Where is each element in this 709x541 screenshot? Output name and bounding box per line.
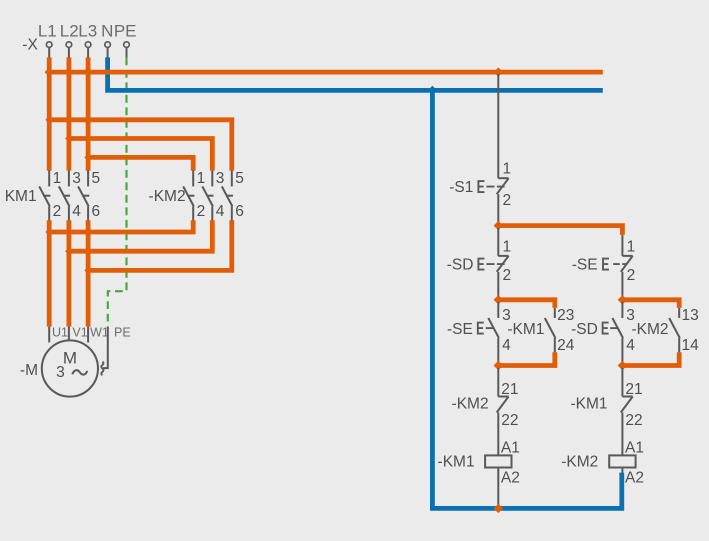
interlock contact -KM1 21-22 (NC) <box>621 368 643 456</box>
svg-text:21: 21 <box>625 381 642 398</box>
contactor KM1 pole 3-4 <box>59 170 81 220</box>
node junction L2 tap <box>65 135 73 143</box>
wire L3 vertical (upper) <box>86 57 91 170</box>
node junction control tap <box>494 67 503 76</box>
aux contact -KM2 13-14 (NO) <box>669 307 699 354</box>
contactor KM1 pole 1-2 <box>39 170 61 220</box>
svg-text:1: 1 <box>197 170 206 187</box>
motor -M <box>42 325 131 396</box>
wire link SE to KM2 aux <box>622 300 679 308</box>
svg-text:A1: A1 <box>625 439 644 456</box>
svg-text:A2: A2 <box>625 469 644 486</box>
node junction below S1 <box>494 221 503 230</box>
svg-text:-KM2: -KM2 <box>632 321 669 338</box>
svg-text:14: 14 <box>682 337 700 354</box>
svg-text:5: 5 <box>92 170 101 187</box>
interlock contact -KM2 21-22 (NC) <box>497 368 519 456</box>
svg-text:A2: A2 <box>501 469 520 486</box>
svg-text:-KM1: -KM1 <box>507 321 544 338</box>
svg-text:24: 24 <box>557 337 575 354</box>
pushbutton -SE (NO) <box>478 302 511 363</box>
pushbutton -S1 (NC) <box>478 161 511 224</box>
wire U1 feeder <box>47 220 52 326</box>
svg-text:V1: V1 <box>72 325 87 339</box>
wire V1 feeder <box>67 220 72 326</box>
svg-text:1: 1 <box>503 161 512 178</box>
node junction link row2 <box>65 247 73 255</box>
wire KM1 aux return link <box>498 352 555 365</box>
svg-text:-SD: -SD <box>447 257 474 274</box>
node junction below SE <box>618 295 627 304</box>
wire L2 vertical (upper) <box>67 57 72 170</box>
wire N return (blue) <box>432 90 621 508</box>
svg-text:-X: -X <box>22 36 38 53</box>
svg-text:6: 6 <box>235 203 244 220</box>
wire L1 vertical (upper) <box>47 57 52 170</box>
wire link SD to KM1 aux <box>498 300 555 308</box>
svg-text:13: 13 <box>682 307 699 324</box>
terminal PE <box>114 22 137 58</box>
svg-text:2: 2 <box>197 203 206 220</box>
contactor KM2 pole 1-2 <box>183 170 205 220</box>
svg-text:M: M <box>63 348 77 367</box>
svg-text:KM1: KM1 <box>5 188 37 205</box>
svg-text:22: 22 <box>501 412 518 429</box>
svg-text:N: N <box>101 22 113 41</box>
svg-text:L3: L3 <box>78 22 97 41</box>
svg-text:4: 4 <box>502 337 511 354</box>
wire W1 feeder <box>86 220 91 326</box>
svg-text:1: 1 <box>627 239 636 256</box>
svg-text:2: 2 <box>627 267 636 284</box>
svg-text:6: 6 <box>92 203 101 220</box>
terminal L1 <box>38 22 57 58</box>
wire tap L3 to KM2 pin 1 <box>88 157 193 170</box>
node junction below SE-NO <box>494 361 503 370</box>
wire L1 rail to control circuit <box>49 70 603 75</box>
svg-text:L2: L2 <box>60 22 79 41</box>
svg-text:5: 5 <box>235 170 244 187</box>
node junction below SD <box>494 295 503 304</box>
node junction below SD-NO <box>618 361 627 370</box>
node junction link row1 <box>45 228 53 236</box>
node junction coil KM1 to N <box>494 504 503 513</box>
wire link S1 to SE branch <box>498 226 622 235</box>
node junction N tap <box>428 86 437 95</box>
node junction L3 tap <box>84 154 92 162</box>
wire KM2 aux return link <box>622 352 679 365</box>
svg-text:-M: -M <box>20 362 38 379</box>
wire KM2 pin2 link <box>49 220 193 232</box>
svg-text:PE: PE <box>114 325 131 339</box>
svg-text:-SD: -SD <box>571 321 598 338</box>
pushbutton -SE (NC) <box>603 235 635 298</box>
svg-text:-S1: -S1 <box>449 179 473 196</box>
svg-text:3: 3 <box>216 170 225 187</box>
svg-text:2: 2 <box>503 267 512 284</box>
pushbutton -SD (NC) <box>478 228 511 298</box>
terminal N <box>101 22 113 58</box>
svg-text:4: 4 <box>216 203 225 220</box>
svg-text:-KM1: -KM1 <box>438 454 475 471</box>
svg-text:-KM2: -KM2 <box>561 454 598 471</box>
wire tap L2 to KM2 pin 3 <box>69 139 212 171</box>
node junction L1-rail <box>45 67 54 76</box>
contactor KM1 pole 5-6 <box>78 170 100 220</box>
wire PE to motor frame <box>101 327 108 375</box>
wire tap L1 to KM2 pin 5 <box>49 120 232 171</box>
svg-text:W1: W1 <box>90 325 109 339</box>
wire KM2 pin4 link <box>69 220 212 251</box>
pushbutton -SD (NO) <box>603 302 636 363</box>
svg-text:1: 1 <box>53 170 62 187</box>
svg-text:-KM2: -KM2 <box>149 188 186 205</box>
terminal L3 <box>78 22 97 58</box>
wire N (blue) from terminal to rail <box>108 57 603 90</box>
wire PE (green dashed) <box>108 57 127 326</box>
svg-text:21: 21 <box>501 381 518 398</box>
wire KM2 pin6 link <box>88 220 232 270</box>
svg-text:4: 4 <box>626 337 635 354</box>
node junction link row3 <box>84 267 92 275</box>
wire control feed from L1 rail <box>497 74 499 178</box>
svg-text:4: 4 <box>72 203 81 220</box>
coil -KM2 <box>609 439 644 486</box>
svg-text:PE: PE <box>114 22 137 41</box>
svg-text:2: 2 <box>53 203 62 220</box>
svg-text:-KM1: -KM1 <box>570 395 607 412</box>
contactor KM2 pole 3-4 <box>202 170 224 220</box>
svg-text:-KM2: -KM2 <box>452 395 489 412</box>
svg-text:L1: L1 <box>38 22 57 41</box>
contactor KM2 pole 5-6 <box>222 170 244 220</box>
svg-text:2: 2 <box>503 192 512 209</box>
svg-text:3: 3 <box>72 170 81 187</box>
svg-text:U1: U1 <box>52 325 68 339</box>
svg-text:1: 1 <box>503 239 512 256</box>
terminal L2 <box>60 22 79 58</box>
node junction L1 tap <box>45 116 53 124</box>
svg-text:3: 3 <box>56 364 65 381</box>
svg-text:22: 22 <box>625 412 642 429</box>
aux contact -KM1 23-24 (NO) <box>545 307 575 354</box>
svg-text:A1: A1 <box>501 439 520 456</box>
coil -KM1 <box>485 439 520 506</box>
svg-text:-SE: -SE <box>572 257 598 274</box>
svg-text:-SE: -SE <box>447 321 473 338</box>
